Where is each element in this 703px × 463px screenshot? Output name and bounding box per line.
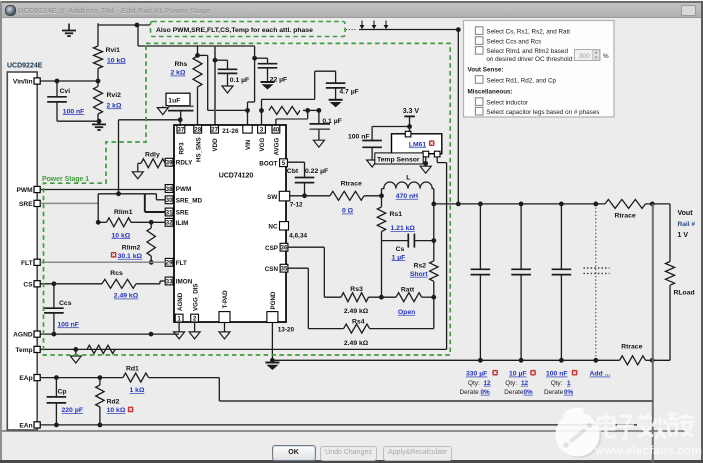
- svg-text:Rs4: Rs4: [352, 319, 365, 326]
- node Cp top junction: [54, 375, 59, 380]
- svg-text:3.3 V: 3.3 V: [403, 108, 420, 115]
- wire rail to Vout corner: [646, 203, 671, 205]
- wire top rail to addl-phase column: [359, 29, 458, 31]
- note box: Also PWM,SRE,FLT,CS,Temp for each attl. phase: [151, 22, 346, 37]
- svg-text:38: 38: [166, 186, 173, 193]
- capacitor 0.1 uF (AVGG bypass): [310, 110, 331, 139]
- svg-text:100 nF: 100 nF: [348, 133, 370, 140]
- svg-text:Select Cs, Rs1, Rs2, and Ratt: Select Cs, Rs1, Rs2, and Ratt: [486, 28, 570, 35]
- svg-text:330 µF: 330 µF: [466, 371, 487, 378]
- node Rhs top junction: [195, 53, 200, 58]
- svg-text:Rhs: Rhs: [175, 61, 188, 68]
- node divider ground junction: [97, 119, 102, 124]
- svg-text:AGND: AGND: [13, 332, 33, 339]
- svg-text:SRE: SRE: [19, 201, 33, 208]
- capacitor Cout-more (dotted): [584, 204, 610, 360]
- wire EAp sense return: [219, 400, 653, 402]
- pin 30 SRE_MD: [165, 196, 173, 204]
- wire 3.3V into LM61: [409, 127, 411, 132]
- pin VIN-pin (UCD74120 top): [243, 125, 252, 133]
- svg-text:ILIM: ILIM: [176, 220, 189, 227]
- wire Rs4 to column: [370, 297, 434, 328]
- pin 40 (UCD74120 top): [272, 125, 280, 133]
- ground (pin 1 AGND): [174, 322, 185, 339]
- error icon (Rd2): [128, 407, 134, 413]
- pin 39 RDLY: [165, 158, 173, 166]
- svg-text:1.21 kΩ: 1.21 kΩ: [391, 225, 416, 232]
- checkbox Select Ccs and Rcs: [475, 37, 483, 45]
- svg-text:1 µF: 1 µF: [392, 254, 406, 261]
- resistor Rcs: [102, 279, 136, 288]
- ground (LM61): [425, 157, 427, 166]
- svg-text:HS_SNS: HS_SNS: [195, 137, 202, 162]
- svg-text:PWM: PWM: [16, 187, 33, 194]
- node Rvgg left junction: [259, 108, 264, 113]
- wire FLT net: [40, 261, 165, 263]
- node Rlim2/FLT junction: [149, 260, 154, 265]
- capacitor Ccs: [44, 284, 64, 334]
- svg-text:3: 3: [260, 126, 264, 133]
- svg-text:31: 31: [166, 209, 173, 216]
- watermark logo circle: [556, 408, 602, 458]
- svg-text:SRE: SRE: [176, 210, 189, 217]
- svg-text:Derate: Derate: [544, 389, 564, 396]
- capacitor Cout2: [511, 204, 531, 360]
- svg-text:Derate: Derate: [504, 389, 524, 396]
- supply 3.3 V: [403, 108, 420, 127]
- svg-text:30: 30: [166, 197, 173, 204]
- svg-text:30.1 kΩ: 30.1 kΩ: [118, 253, 143, 260]
- svg-text:VDD: VDD: [212, 138, 219, 152]
- wire return rail: [272, 359, 619, 361]
- svg-text:4.7 µF: 4.7 µF: [339, 89, 358, 96]
- resistor Rdly: [138, 159, 165, 172]
- wire VDD pin feed: [214, 46, 216, 126]
- node AGND junction: [149, 332, 154, 337]
- svg-text:Vin/Iin: Vin/Iin: [13, 79, 33, 86]
- watermark CJK text: [598, 413, 693, 439]
- svg-text:PWM: PWM: [176, 186, 191, 193]
- svg-text:Rtrace: Rtrace: [615, 213, 636, 220]
- ground (1uF): [157, 106, 168, 114]
- canvas inner borders: [2, 430, 689, 431]
- node Vout sense junction: [650, 202, 655, 207]
- ground (T-PAD): [219, 323, 230, 339]
- svg-text:0.1 µF: 0.1 µF: [230, 77, 249, 84]
- svg-text:LM61: LM61: [409, 141, 427, 148]
- node Temp (UCD9224E pin): [15, 346, 40, 354]
- wire addl-phase output column: [457, 30, 459, 204]
- node RP3 junction: [178, 117, 183, 122]
- pin 33 IMON: [165, 277, 173, 285]
- pin 37 (UCD74120 top): [177, 125, 185, 133]
- svg-text:10 kΩ: 10 kΩ: [112, 232, 131, 239]
- capacitor Cout1: [471, 204, 491, 360]
- resistor Rhs: [193, 56, 202, 126]
- svg-text:4,6,34: 4,6,34: [289, 233, 307, 240]
- ground (PGND): [271, 323, 273, 361]
- node top-rail junction: [135, 23, 140, 28]
- wire Vout sense column: [652, 204, 654, 463]
- resistor Rtrace (Vout): [605, 199, 646, 208]
- wire CSN net: [288, 268, 344, 328]
- svg-text:Rtrace: Rtrace: [621, 344, 642, 351]
- svg-text:Cs: Cs: [396, 246, 405, 253]
- wire Rtrace to inductor: [364, 195, 382, 197]
- svg-text:37: 37: [177, 126, 184, 133]
- svg-text:NC: NC: [268, 224, 278, 231]
- svg-text:1 V: 1 V: [678, 232, 689, 239]
- svg-text:5: 5: [282, 160, 286, 167]
- wire Temp net: [40, 348, 446, 350]
- svg-text:40: 40: [272, 126, 279, 133]
- wire VDD supply rail: [138, 45, 255, 47]
- wire SW net: [290, 195, 330, 197]
- node Rlim2 top junction: [149, 220, 154, 225]
- node 22uF junction: [252, 56, 257, 61]
- wire PWM net: [40, 189, 165, 191]
- pin SW: [279, 191, 289, 201]
- svg-text:32: 32: [166, 220, 173, 227]
- node Cout2 bottom junction: [519, 358, 524, 363]
- svg-text:100 nF: 100 nF: [57, 321, 79, 328]
- node Ratt right junction: [431, 295, 436, 300]
- wire Rs3 to Ratt: [369, 296, 397, 298]
- capacitor 100 nF (LM61 bypass): [362, 127, 382, 160]
- pin 3 (UCD74120 top): [258, 125, 266, 133]
- svg-text:2 kΩ: 2 kΩ: [171, 70, 186, 77]
- svg-text:VGG_DIS: VGG_DIS: [193, 283, 200, 311]
- pin 36 CSP: [280, 243, 288, 251]
- wire RP3 pin feed: [119, 120, 181, 126]
- resistor Rtrace (SW): [330, 191, 364, 200]
- node Ccs/AGND junction: [52, 332, 57, 337]
- wire AGND net: [40, 333, 179, 335]
- wire VDD rail to Rhs: [197, 46, 199, 55]
- pin 31 SRE: [165, 208, 173, 216]
- node phase junction: [456, 202, 461, 207]
- wire SRE net: [40, 202, 98, 204]
- capacitor Cout3: [552, 204, 572, 360]
- resistor Rd2: [96, 378, 104, 425]
- ground (top-left): [62, 24, 76, 37]
- wire CS net: [40, 281, 165, 284]
- pin 2 VGG_DIS: [191, 314, 199, 322]
- window side borders: [0, 1, 2, 461]
- svg-text:AGND: AGND: [177, 292, 184, 311]
- svg-text:RDLY: RDLY: [176, 160, 193, 167]
- pin 27 (UCD74120 top): [211, 125, 219, 133]
- svg-text:1: 1: [567, 380, 571, 387]
- pin 32 ILIM: [165, 218, 173, 226]
- svg-text:0.22 µF: 0.22 µF: [305, 168, 328, 175]
- node inductor left junction: [379, 193, 384, 198]
- checkbox Select Rlm1 Rlm2: [475, 47, 483, 55]
- svg-text:CSN: CSN: [265, 266, 279, 273]
- wire SRE_MD net: [98, 194, 165, 200]
- svg-text:Rs2: Rs2: [414, 263, 427, 270]
- svg-text:CS: CS: [23, 281, 33, 288]
- delete icon Cout1: [492, 370, 498, 376]
- wire Vin/Iin to divider: [40, 80, 98, 82]
- svg-text:21-26: 21-26: [222, 128, 239, 135]
- svg-text:12: 12: [484, 380, 492, 387]
- svg-text:28: 28: [194, 126, 201, 133]
- node AVGG branch junction: [305, 108, 310, 113]
- capacitor Cbt: [287, 162, 314, 196]
- svg-text:Temp: Temp: [15, 347, 32, 354]
- wire Cvi bottom to Rvi2 bottom: [57, 120, 99, 122]
- svg-text:0%: 0%: [564, 389, 574, 396]
- node Temp ground junction: [73, 347, 78, 352]
- svg-text:Rs3: Rs3: [350, 286, 363, 293]
- derate label Cout2: [504, 389, 533, 396]
- resistor Rs4: [344, 324, 370, 333]
- value label Cout2: [509, 371, 527, 378]
- label box Temp Sensor: [375, 153, 423, 164]
- capacitor Cvi: [47, 81, 67, 121]
- svg-text:22 µF: 22 µF: [270, 76, 288, 83]
- controller U2 UCD9224E: [7, 62, 43, 430]
- inductor L: [382, 182, 434, 204]
- svg-text:IMON: IMON: [176, 279, 193, 286]
- temp sensor U3 LM61: [392, 131, 442, 157]
- svg-text:0%: 0%: [481, 389, 491, 396]
- svg-text:Rs1: Rs1: [390, 211, 403, 218]
- svg-text:EAp: EAp: [19, 375, 32, 382]
- svg-text:Ratt: Ratt: [401, 286, 415, 293]
- svg-text:1 kΩ: 1 kΩ: [130, 387, 145, 394]
- svg-text:on desired driver OC threshold: on desired driver OC threshold:: [486, 56, 574, 63]
- svg-text:Rvi1: Rvi1: [106, 47, 121, 54]
- svg-text:PGND: PGND: [270, 291, 277, 309]
- svg-text:2.49 kΩ: 2.49 kΩ: [344, 308, 369, 315]
- ground (pin 2 VGG_DIS): [189, 322, 200, 339]
- svg-text:EAn: EAn: [19, 423, 32, 430]
- derate label Cout1: [460, 389, 491, 396]
- svg-text:Rvi2: Rvi2: [107, 92, 122, 99]
- resistor (AVGG filter, unlabeled): [269, 106, 300, 114]
- delete icon Cout2: [530, 370, 536, 376]
- svg-text:1: 1: [177, 315, 181, 322]
- node Cbt/SW junction: [302, 193, 307, 198]
- node Vin/Iin (UCD9224E pin): [13, 78, 40, 86]
- svg-text:VGG: VGG: [259, 138, 266, 152]
- svg-text:T-PAD: T-PAD: [222, 290, 229, 309]
- svg-text:Rlim1: Rlim1: [114, 209, 133, 216]
- svg-text:Miscellaneous:: Miscellaneous:: [468, 89, 513, 96]
- pin 5 BOOT: [280, 159, 288, 167]
- svg-text:Rdly: Rdly: [145, 152, 160, 159]
- svg-text:300: 300: [579, 53, 590, 60]
- qty label Cout3: [551, 380, 571, 387]
- svg-text:36: 36: [281, 245, 288, 252]
- pin 28 (UCD74120 top): [194, 125, 202, 133]
- spinner OC threshold: [575, 50, 601, 61]
- node VIN pin junction: [245, 108, 250, 113]
- power stage boundary (green dashed): [44, 43, 451, 355]
- window bottom border: [0, 460, 703, 463]
- node PGND rail junction: [270, 358, 275, 363]
- resistor Rvi1: [94, 23, 103, 81]
- svg-text:Add ...: Add ...: [590, 371, 611, 378]
- svg-text:Vout Sense:: Vout Sense:: [468, 67, 504, 74]
- node Cout3 bottom junction: [559, 358, 564, 363]
- wire SRE strap: [97, 194, 99, 223]
- svg-text:1uF: 1uF: [168, 98, 180, 105]
- wire EAn net: [40, 424, 653, 426]
- derate label Cout3: [544, 389, 574, 396]
- svg-text:2.49 kΩ: 2.49 kΩ: [114, 293, 139, 300]
- svg-text:2.49 kΩ: 2.49 kΩ: [344, 340, 369, 347]
- wire into VIN pin: [247, 110, 249, 126]
- svg-text:Rd1: Rd1: [126, 366, 139, 373]
- wire AVGG pin feed: [276, 110, 308, 126]
- error icon (Rlim2): [111, 252, 117, 258]
- pin 29 FLT: [165, 258, 173, 266]
- svg-text:Select capacitor legs based on: Select capacitor legs based on # phases: [486, 109, 599, 116]
- wire Vout rail: [434, 203, 605, 205]
- svg-text:Select Rd1, Rd2, and Cp: Select Rd1, Rd2, and Cp: [486, 77, 556, 84]
- node Rlim1 left junction: [96, 220, 101, 225]
- svg-text:Select Rlm1 and Rlm2 based: Select Rlm1 and Rlm2 based: [486, 48, 568, 55]
- wire EAp net: [40, 378, 219, 401]
- svg-text:AVGG: AVGG: [274, 138, 281, 156]
- resistor Rs3: [341, 293, 369, 302]
- node Cout1 bottom junction: [478, 358, 483, 363]
- delete icon Cout3: [572, 370, 578, 376]
- svg-text:Rlim2: Rlim2: [122, 245, 141, 252]
- wire VIN jog: [248, 102, 255, 110]
- svg-text:SRE_MD: SRE_MD: [176, 197, 203, 204]
- node EAn (UCD9224E pin): [19, 422, 40, 430]
- value label Cout1: [466, 371, 487, 378]
- svg-text:100 nF: 100 nF: [63, 108, 85, 115]
- svg-text:Vout: Vout: [678, 210, 694, 217]
- svg-text:0 Ω: 0 Ω: [342, 208, 354, 215]
- svg-text:BOOT: BOOT: [259, 160, 277, 167]
- capacitor 1uF (RP3): [166, 93, 194, 120]
- pin NC: [280, 222, 289, 230]
- svg-text:0%: 0%: [524, 389, 534, 396]
- capacitor 22 uF: [255, 58, 278, 81]
- svg-text:UCD9224E: UCD9224E: [7, 62, 43, 69]
- svg-text:39: 39: [166, 160, 173, 167]
- node CS (UCD9224E pin): [23, 281, 40, 289]
- svg-text:220 pF: 220 pF: [62, 407, 84, 414]
- svg-text:VIN: VIN: [245, 139, 252, 150]
- wire Vout return: [652, 359, 670, 361]
- svg-text:2: 2: [193, 315, 197, 322]
- svg-text:Select Ccs and Rcs: Select Ccs and Rcs: [486, 38, 541, 45]
- title bar: [2, 3, 701, 18]
- value label Cout3: [546, 371, 568, 378]
- wire top-rail drop: [137, 25, 139, 46]
- svg-text:10 µF: 10 µF: [509, 371, 527, 378]
- node EAp (UCD9224E pin): [19, 375, 40, 383]
- node dotted-cap top junction: [593, 202, 598, 207]
- node Ccs junction: [52, 281, 57, 286]
- svg-text:UCD74120: UCD74120: [219, 173, 254, 180]
- svg-text:0.1 µF: 0.1 µF: [322, 118, 341, 125]
- wire 3.3V to 100nF: [372, 126, 409, 128]
- wire return to junction: [646, 359, 653, 361]
- svg-text:FLT: FLT: [176, 260, 187, 267]
- node PWM (UCD9224E pin): [16, 186, 40, 194]
- svg-text:Select inductor: Select inductor: [486, 99, 528, 106]
- resistor Rtrace (return): [620, 356, 646, 365]
- wire Rhs node to VIN pin: [198, 55, 248, 110]
- node Cout3 top junction: [559, 202, 564, 207]
- resistor Rd1: [123, 373, 149, 382]
- node 0.1uF branch junction: [317, 108, 322, 113]
- svg-text:Rcs: Rcs: [110, 270, 123, 277]
- svg-text:470 nH: 470 nH: [396, 193, 418, 200]
- resistor Rs1: [377, 196, 385, 241]
- node dotted-cap bottom junction: [593, 358, 598, 363]
- resistor Ratt: [396, 293, 422, 302]
- ground (below Rvi2): [92, 121, 106, 130]
- node return junction: [650, 358, 655, 363]
- node SRE_MD junction: [116, 191, 121, 196]
- wire CSP net: [288, 247, 341, 297]
- node Rd2 bottom junction: [98, 423, 103, 428]
- svg-text:Cp: Cp: [58, 389, 67, 396]
- qty label Cout1: [468, 380, 491, 387]
- error icon (LM61): [429, 140, 435, 146]
- wire Temp signal: [437, 157, 446, 350]
- svg-text:Power Stage 1: Power Stage 1: [42, 176, 89, 183]
- wire inductor-right column: [433, 204, 435, 297]
- svg-text:Qty:: Qty:: [505, 380, 517, 387]
- wire VIN top rail (left): [98, 24, 150, 26]
- pin PGND: [267, 312, 278, 323]
- OK button: [272, 445, 316, 461]
- node 3.3V junction: [407, 124, 412, 129]
- ground (VDD bypass): [222, 86, 233, 93]
- checkbox Select capacitor legs: [475, 107, 483, 115]
- node VDD bypass junction: [213, 58, 218, 63]
- node LM61 gnd junction: [423, 161, 428, 166]
- svg-text:Also PWM,SRE,FLT,CS,Temp for e: Also PWM,SRE,FLT,CS,Temp for each attl. …: [156, 27, 313, 34]
- wire Ratt to column: [422, 296, 434, 298]
- svg-text:7-12: 7-12: [290, 202, 303, 209]
- capacitor Cp: [47, 378, 67, 425]
- node Cp bottom junction: [54, 423, 59, 428]
- pin 38 PWM: [165, 185, 173, 193]
- resistor Rlim2: [147, 222, 155, 262]
- node phase-bus junction: [456, 27, 461, 32]
- checkbox Select Rd1 Rd2 Cp: [475, 76, 483, 84]
- ground (22 uF): [261, 82, 275, 90]
- resistor Rs2: [430, 261, 438, 282]
- svg-text:Rail #: Rail #: [678, 221, 696, 228]
- svg-text:FLT: FLT: [21, 260, 33, 267]
- wire VGG net: [262, 71, 336, 126]
- options panel: [464, 21, 615, 118]
- resistor Rlim1: [98, 218, 165, 227]
- pin T-PAD: [219, 312, 230, 323]
- capacitor Cs: [382, 234, 434, 248]
- svg-text:Open: Open: [398, 309, 415, 316]
- capacitor 0.1 uF (VDD bypass): [215, 60, 237, 85]
- ground (Rdly): [132, 172, 143, 179]
- svg-text:10 kΩ: 10 kΩ: [107, 57, 126, 64]
- window icon: [5, 5, 16, 16]
- svg-text:29: 29: [166, 260, 173, 267]
- qty label Cout2: [505, 380, 528, 387]
- svg-text:Cvi: Cvi: [60, 88, 71, 95]
